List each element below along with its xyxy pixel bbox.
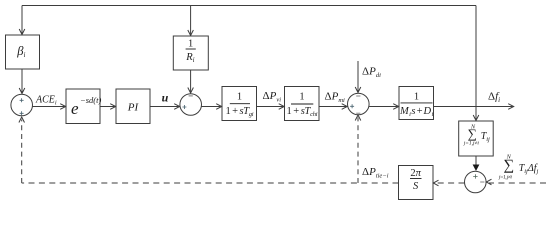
wire beta to sum S1 bbox=[19, 69, 25, 94]
label ACE_i bbox=[35, 95, 57, 107]
svg-text:ACEi: ACEi bbox=[35, 95, 57, 107]
svg-text:TijΔfj: TijΔfj bbox=[519, 163, 539, 175]
label delta f_i output bbox=[488, 90, 500, 104]
block 1/R_i bbox=[173, 36, 208, 70]
svg-text:1: 1 bbox=[414, 91, 419, 102]
label dP_tie-i bbox=[362, 166, 389, 180]
label governor fraction bbox=[226, 92, 254, 118]
wire top feedback horizontal bbox=[22, 5, 476, 7]
svg-text:1: 1 bbox=[237, 92, 242, 103]
sign plus bottom inside S1 bbox=[20, 111, 24, 115]
svg-text:1: 1 bbox=[188, 38, 193, 49]
wire PI to sum S2 bbox=[150, 104, 180, 110]
sign plus left inside S3 bbox=[350, 104, 354, 108]
label tie sum block content bbox=[463, 125, 490, 147]
label turbine fraction bbox=[287, 91, 318, 117]
label sum T_ij delta f_j bbox=[498, 154, 539, 180]
svg-text:Mis+Di: Mis+Di bbox=[399, 106, 433, 118]
svg-text:−sd(t): −sd(t) bbox=[80, 95, 101, 105]
sign minus top inside S3 bbox=[356, 95, 360, 97]
svg-text:1: 1 bbox=[299, 91, 304, 102]
summing junction S4 bbox=[465, 171, 487, 193]
block governor 1/(1+sTgi) bbox=[222, 87, 257, 121]
wire dashed up into S3 bottom bbox=[357, 118, 359, 184]
svg-text:2π: 2π bbox=[410, 168, 421, 179]
wire output delta f with arrow bbox=[434, 104, 514, 110]
sign minus bottom inside S3 bbox=[356, 112, 360, 114]
label dP_di bbox=[362, 66, 381, 80]
sign minus top inside S2 bbox=[189, 95, 193, 97]
svg-text:PI: PI bbox=[127, 102, 140, 114]
wire dP_di drop into S3 bbox=[355, 61, 361, 93]
svg-text:j=1, j≠i: j=1, j≠i bbox=[498, 174, 512, 180]
label u bbox=[162, 91, 169, 105]
sign minus right inside S4 bbox=[480, 181, 484, 183]
wire dashed up into S1 bottom bbox=[21, 120, 23, 184]
svg-text:u: u bbox=[162, 91, 169, 105]
block delay e^-sd(t) bbox=[66, 89, 100, 124]
arrow into 2pi/s right bbox=[433, 180, 438, 186]
wire delay to PI bbox=[100, 104, 116, 110]
wire tie sum block to sum S4 bbox=[475, 156, 477, 170]
sign plus top inside S1 bbox=[20, 98, 24, 102]
block turbine 1/(1+sTchi) bbox=[285, 87, 320, 121]
wire R block to sum S2 bbox=[188, 70, 194, 93]
block tie sum T_ij bbox=[459, 121, 494, 156]
svg-text:e: e bbox=[71, 99, 79, 118]
wire S2 to governor block bbox=[202, 104, 222, 110]
wire S3 to inertia block bbox=[369, 104, 399, 110]
summing junction S3 bbox=[348, 93, 370, 115]
arrow into S3 bottom bbox=[355, 115, 361, 121]
arrow into S4 right bbox=[486, 179, 491, 185]
wire top line down into beta block bbox=[19, 6, 25, 35]
block PI bbox=[116, 89, 150, 124]
label inertia fraction bbox=[399, 91, 433, 118]
label e^-sd(t) bbox=[71, 95, 101, 118]
wire dashed S4 to 2pi/s block bbox=[436, 182, 465, 184]
label dP_mi bbox=[325, 91, 346, 105]
wire dashed from right edge into S4 bbox=[489, 182, 546, 184]
wire output node down into tie sum block bbox=[473, 107, 479, 121]
wire dashed bottom feedback long bbox=[22, 182, 399, 184]
svg-text:j=1,j≠i: j=1,j≠i bbox=[463, 141, 480, 147]
block inertia 1/(Mis+Di) bbox=[399, 87, 434, 120]
sign plus left inside S2 bbox=[182, 105, 186, 109]
block beta_i bbox=[6, 35, 40, 69]
wire top line down into R block bbox=[188, 6, 194, 36]
label 2pi over s bbox=[410, 168, 422, 192]
wire top feedback right vertical from output node bbox=[475, 6, 477, 107]
arrow into S1 bottom bbox=[19, 117, 25, 123]
label dP_vi bbox=[263, 90, 282, 104]
wire turbine to sum S3 with dP_mi bbox=[319, 104, 347, 110]
wire governor to turbine with dP_vi bbox=[257, 104, 285, 110]
label PI bbox=[127, 102, 140, 114]
summing junction S2 bbox=[180, 94, 202, 116]
summing junction S1 bbox=[11, 94, 33, 116]
sign plus top inside S4 bbox=[473, 174, 477, 178]
label 1 over R_i bbox=[185, 38, 196, 63]
label beta_i bbox=[16, 44, 25, 59]
arrow filled into S4 top bbox=[473, 165, 480, 172]
block 2pi over s bbox=[399, 166, 434, 200]
wire S1 to delay block with ACE arrow bbox=[33, 104, 66, 110]
svg-text:S: S bbox=[413, 181, 419, 192]
